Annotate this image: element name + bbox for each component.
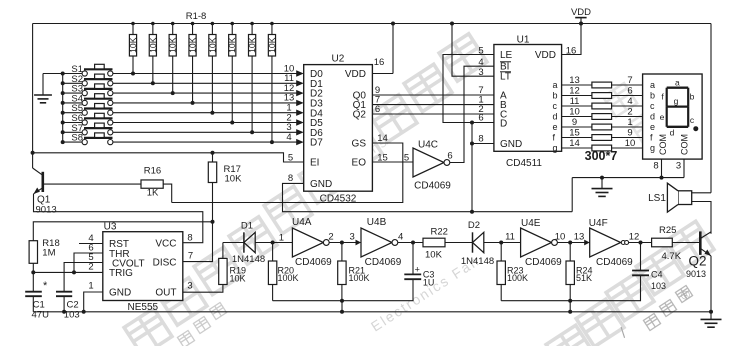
svg-text:8: 8 (187, 233, 192, 244)
svg-text:b: b (553, 91, 558, 101)
svg-text:EI: EI (310, 158, 319, 169)
svg-text:10K: 10K (267, 37, 277, 53)
svg-text:*: * (43, 280, 48, 292)
svg-text:VCC: VCC (155, 238, 176, 249)
svg-text:16: 16 (374, 57, 385, 68)
svg-text:3: 3 (350, 232, 355, 243)
svg-text:10K: 10K (148, 37, 158, 53)
svg-text:CD4069: CD4069 (414, 181, 451, 192)
svg-text:R25: R25 (659, 225, 676, 236)
svg-text:11: 11 (570, 96, 580, 107)
svg-text:DISC: DISC (153, 257, 177, 268)
svg-text:e: e (553, 122, 558, 132)
svg-text:S8: S8 (71, 133, 83, 144)
svg-text:8: 8 (653, 161, 658, 172)
svg-text:d: d (553, 112, 558, 122)
svg-text:1: 1 (279, 232, 284, 243)
svg-text:LS1: LS1 (648, 193, 666, 204)
svg-text:13: 13 (569, 75, 580, 86)
svg-text:3: 3 (187, 281, 192, 292)
svg-text:GND: GND (310, 179, 332, 190)
svg-text:c: c (553, 101, 558, 111)
svg-text:Q2: Q2 (353, 109, 367, 120)
svg-text:51K: 51K (576, 273, 592, 283)
svg-text:1N4148: 1N4148 (461, 256, 494, 267)
svg-text:1: 1 (88, 280, 93, 291)
svg-text:10K: 10K (227, 37, 237, 53)
svg-text:100K: 100K (507, 273, 528, 283)
svg-text:5: 5 (288, 152, 293, 163)
svg-text:CD4069: CD4069 (365, 257, 402, 268)
svg-text:100K: 100K (278, 273, 299, 283)
svg-text:103: 103 (64, 309, 80, 320)
svg-text:12: 12 (569, 85, 580, 96)
svg-text:6: 6 (478, 113, 483, 124)
svg-text:3: 3 (478, 67, 483, 78)
svg-text:g: g (650, 143, 655, 153)
svg-text:Q2: Q2 (688, 254, 706, 269)
svg-text:9: 9 (627, 127, 632, 138)
svg-text:C4: C4 (651, 270, 663, 280)
svg-text:4.7K: 4.7K (662, 251, 682, 262)
svg-text:R1-8: R1-8 (186, 11, 207, 22)
svg-text:10K: 10K (230, 273, 246, 283)
svg-text:10K: 10K (247, 37, 257, 53)
svg-text:U3: U3 (104, 221, 117, 232)
svg-text:14: 14 (377, 133, 388, 144)
svg-text:8: 8 (478, 133, 483, 144)
svg-text:U4E: U4E (521, 218, 541, 229)
svg-text:14: 14 (569, 138, 580, 149)
svg-text:VDD: VDD (535, 50, 556, 61)
svg-text:5: 5 (478, 46, 483, 57)
svg-text:a: a (675, 78, 680, 88)
svg-text:d: d (670, 128, 675, 138)
svg-text:CD4069: CD4069 (525, 257, 562, 268)
svg-text:+: + (415, 265, 420, 275)
svg-text:e: e (650, 122, 655, 132)
svg-text:10K: 10K (168, 37, 178, 53)
svg-text:g: g (674, 96, 679, 106)
svg-text:VDD: VDD (571, 7, 591, 18)
svg-text:GND: GND (500, 139, 522, 150)
svg-text:U4C: U4C (418, 140, 438, 151)
svg-text:1K: 1K (147, 187, 159, 198)
svg-text:6: 6 (375, 104, 380, 115)
svg-text:1: 1 (627, 117, 632, 128)
svg-text:10K: 10K (225, 174, 243, 185)
svg-text:TRIG: TRIG (109, 268, 133, 279)
svg-text:5: 5 (404, 152, 409, 163)
svg-text:GS: GS (352, 139, 367, 150)
svg-text:9013: 9013 (36, 204, 57, 215)
svg-text:U2: U2 (332, 54, 345, 65)
svg-text:2: 2 (328, 232, 333, 243)
svg-text:47U: 47U (32, 309, 50, 320)
svg-text:15: 15 (569, 127, 580, 138)
svg-text:b: b (690, 92, 695, 102)
svg-text:R16: R16 (144, 165, 161, 176)
svg-text:VDD: VDD (345, 69, 366, 80)
svg-text:6: 6 (447, 151, 452, 162)
svg-text:COM: COM (658, 134, 668, 155)
svg-text:COM: COM (680, 134, 690, 155)
svg-text:12: 12 (629, 232, 640, 243)
svg-text:d: d (650, 112, 655, 122)
svg-text:U4F: U4F (589, 218, 608, 229)
svg-text:16: 16 (566, 46, 577, 57)
svg-text:2: 2 (627, 106, 632, 117)
svg-text:a: a (553, 80, 558, 90)
svg-text:10K: 10K (128, 37, 138, 53)
svg-text:10: 10 (555, 232, 566, 243)
svg-text:6: 6 (627, 85, 632, 96)
svg-text:10: 10 (569, 106, 580, 117)
svg-text:1N4148: 1N4148 (232, 254, 265, 265)
svg-text:7: 7 (627, 75, 632, 86)
svg-text:D2: D2 (468, 220, 480, 231)
svg-text:c: c (650, 101, 655, 111)
svg-text:D1: D1 (241, 221, 253, 232)
svg-text:9013: 9013 (686, 269, 706, 279)
svg-text:U4B: U4B (367, 217, 387, 228)
svg-text:9: 9 (572, 117, 577, 128)
svg-text:GND: GND (109, 288, 131, 299)
svg-text:EO: EO (352, 158, 367, 169)
svg-text:8: 8 (288, 173, 293, 184)
svg-text:1M: 1M (42, 248, 55, 259)
svg-text:2: 2 (88, 261, 93, 272)
svg-text:U4A: U4A (292, 217, 312, 228)
svg-text:D: D (500, 118, 507, 129)
svg-text:3: 3 (676, 161, 681, 172)
svg-text:100K: 100K (349, 273, 370, 283)
svg-text:1U: 1U (423, 278, 435, 288)
svg-text:15: 15 (377, 152, 388, 163)
svg-text:10: 10 (625, 138, 636, 149)
svg-text:R22: R22 (431, 226, 448, 237)
svg-text:e: e (660, 112, 665, 122)
svg-text:b: b (650, 91, 655, 101)
svg-text:CD4511: CD4511 (506, 158, 542, 169)
svg-text:13: 13 (574, 232, 585, 243)
svg-text:10K: 10K (188, 37, 198, 53)
svg-text:4: 4 (286, 132, 291, 143)
svg-text:CD4069: CD4069 (295, 257, 332, 268)
svg-text:103: 103 (651, 281, 666, 291)
svg-text:4: 4 (398, 232, 403, 243)
svg-text:10K: 10K (425, 250, 443, 261)
svg-text:OUT: OUT (155, 288, 176, 299)
svg-text:g: g (553, 143, 558, 153)
svg-text:U1: U1 (517, 35, 530, 46)
svg-text:7: 7 (188, 251, 193, 262)
svg-text:D7: D7 (310, 138, 323, 149)
svg-text:CD4069: CD4069 (596, 257, 633, 268)
svg-text:LE: LE (500, 50, 513, 61)
svg-text:a: a (650, 80, 655, 90)
svg-text:10K: 10K (207, 37, 217, 53)
svg-text:11: 11 (505, 232, 515, 243)
svg-text:4: 4 (627, 96, 632, 107)
svg-text:LT: LT (500, 72, 511, 83)
svg-text:300*7: 300*7 (585, 149, 618, 163)
